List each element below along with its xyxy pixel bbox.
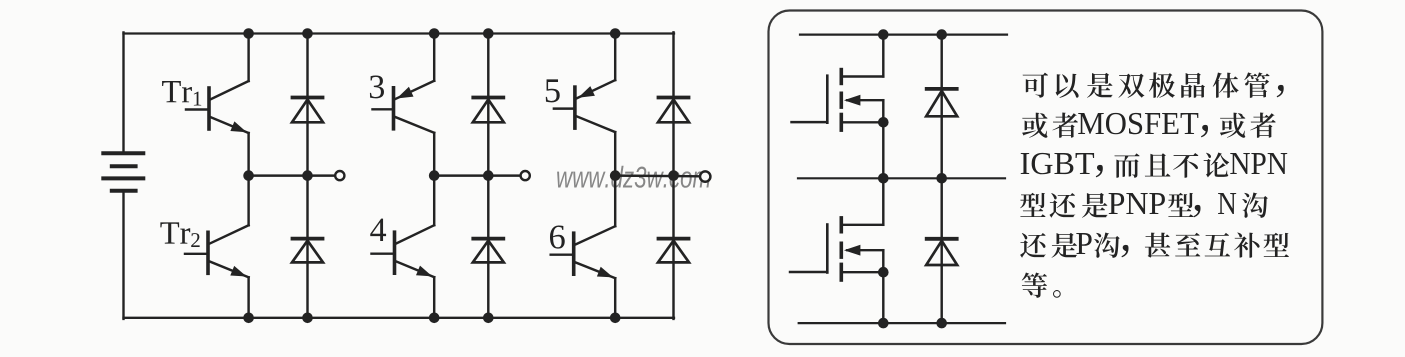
diode D8 (lower box) [927, 237, 957, 241]
wire diode column 3 [672, 32, 674, 319]
label Tr1 [162, 81, 192, 102]
transistor 3 base lead [373, 108, 394, 110]
wire phase output U [249, 174, 336, 176]
transistor Tr1 emitter with arrow [210, 117, 248, 133]
MOSFET Q2 drain vertical [882, 178, 884, 225]
transistor 5 base lead [554, 107, 575, 109]
watermark www.dz3w.com [557, 166, 710, 188]
MOSFET Q1 (upper) channel bars [839, 70, 843, 84]
text line 1 "可以是双极晶体管," [1023, 73, 1048, 98]
MOSFET Q2 (lower) channel bars [839, 218, 843, 232]
wire diode column 1 [306, 34, 308, 318]
text line 6 "等。" [1022, 272, 1047, 297]
transistor 5 collector (bottom) [576, 116, 615, 132]
wire top rail (+) [124, 32, 675, 34]
diode D6 (lower leg3) [659, 237, 689, 241]
text line 5 "还是P沟, 甚至互补型" [1020, 233, 1046, 258]
wire phase output W [615, 174, 700, 177]
transistor 4 (NPN) base bar [393, 232, 397, 273]
wire diode column 2 [487, 34, 489, 318]
transistor 3 collector (bottom) [395, 117, 435, 133]
transistor Tr1 base lead [186, 108, 209, 110]
label 4 [370, 219, 386, 241]
text line 3 "IGBT, 而且不论NPN" [1021, 153, 1094, 174]
text line 4 "型还是PNP型, N沟" [1020, 193, 1045, 217]
transistor Tr2 collector [209, 225, 248, 244]
MOSFET Q1 (upper) gate lead [792, 121, 828, 123]
diode D4 (lower leg2) [473, 237, 503, 241]
junction dots box rails [878, 29, 889, 40]
explanatory CJK text block [1020, 72, 1289, 297]
MOSFET Q2 (lower) body lead with arrow [847, 249, 883, 251]
transistor 5 emitter with arrow (top) [576, 80, 615, 99]
transistor Tr2 emitter with arrow [209, 261, 248, 277]
transistor Tr2 base lead [185, 253, 208, 255]
transistor Tr2 (NPN) base bar [206, 232, 210, 273]
MOSFET Q2 (lower) source junction dot [878, 267, 889, 278]
wire box bottom rail [799, 322, 1005, 324]
transistor 6 base lead [551, 253, 574, 255]
transistor 3 (PNP) base bar [392, 88, 396, 129]
transistor 4 emitter with arrow [396, 261, 435, 277]
label 5 [546, 79, 560, 102]
MOSFET Q1 (upper) gate line [826, 76, 829, 123]
MOSFET Q1 drain vertical [882, 35, 884, 77]
label 6 [550, 225, 565, 248]
transistor 6 collector [575, 226, 615, 245]
MOSFET Q2 (lower) gate lead [790, 271, 827, 273]
wire left rail upper [122, 32, 124, 153]
junction dots bottom rail [243, 313, 254, 324]
diode D2 (lower leg1) [293, 237, 323, 241]
terminal W [700, 171, 710, 181]
MOSFET Q2 (lower) gate line [826, 225, 829, 273]
diode D7 (upper box) [927, 87, 957, 91]
label 3 [370, 75, 384, 98]
transistor 4 base lead [372, 252, 395, 254]
wire box diode column [940, 35, 942, 324]
wire phase output V [434, 174, 520, 176]
transistor 6 emitter with arrow [575, 262, 615, 278]
transistor 6 (NPN) base bar [572, 233, 576, 274]
transistor Tr1 (NPN) base bar [207, 88, 211, 129]
text line 2 "或者MOSFET, 或者" [1022, 113, 1047, 138]
terminal U [335, 171, 344, 180]
terminal V [521, 171, 530, 180]
MOSFET Q2 source vertical [882, 272, 884, 323]
junction dots mid nodes [243, 170, 254, 181]
MOSFET Q1 (upper) source junction dot [878, 117, 889, 128]
transistor 5 (PNP) base bar [573, 87, 577, 128]
transistor 3 emitter with arrow (top) [395, 81, 435, 100]
label Tr2 [160, 222, 190, 243]
rounded box [769, 11, 1323, 345]
MOSFET Q1 (upper) body lead with arrow [847, 99, 883, 101]
MOSFET Q1 (upper) source lead [843, 121, 884, 123]
wire box mid rail [798, 177, 1005, 179]
transistor Tr1 collector [210, 81, 248, 100]
diode D3 (upper leg2) [473, 96, 503, 100]
transistor 4 collector [396, 225, 435, 244]
diode D5 (upper leg3) [659, 96, 689, 100]
wire bottom rail (-) [124, 317, 675, 319]
MOSFET Q1 source vertical [882, 122, 884, 178]
wire box top rail [800, 33, 1007, 35]
junction dots top rail [243, 28, 254, 39]
wire left rail lower [122, 191, 124, 319]
diode D1 (upper leg1) [293, 96, 323, 100]
MOSFET Q2 (lower) source lead [843, 271, 884, 273]
battery B1 [103, 151, 143, 155]
MOSFET Q1 (upper) drain lead [843, 75, 884, 77]
MOSFET Q2 (lower) drain lead [843, 224, 884, 226]
